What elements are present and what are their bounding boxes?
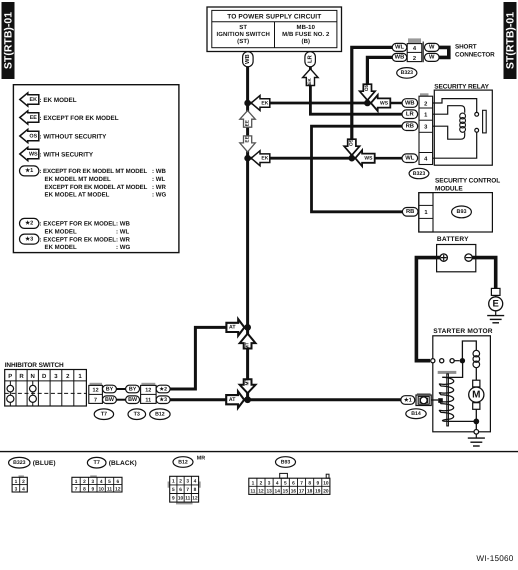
arrow EK below LR capsule bbox=[303, 69, 319, 86]
short connector pin block bbox=[407, 38, 423, 62]
svg-text:EE: EE bbox=[30, 115, 38, 121]
wire RB relay pin 3 to security control module bbox=[312, 126, 404, 212]
svg-text:3: 3 bbox=[91, 479, 94, 485]
svg-text:B93: B93 bbox=[281, 459, 291, 465]
svg-text:EK MODEL AT MODEL: EK MODEL AT MODEL bbox=[45, 192, 110, 199]
wire connector to solenoid dot bbox=[431, 399, 438, 401]
wire star3 from B12 pin 11 to j2 bbox=[170, 398, 240, 401]
starter motor branch wiring bbox=[462, 341, 476, 361]
battery wire to starter bbox=[416, 258, 440, 361]
svg-text:4: 4 bbox=[276, 480, 279, 486]
capsule LR fuse bbox=[305, 52, 316, 67]
svg-text:: WB: : WB bbox=[152, 168, 166, 175]
svg-text:ST(RTB)-01: ST(RTB)-01 bbox=[505, 12, 517, 69]
capsule star2 B12 pin 12 bbox=[156, 385, 170, 393]
svg-text:INHIBITOR SWITCH: INHIBITOR SWITCH bbox=[5, 362, 64, 369]
wire B to relay pin 2 bbox=[367, 102, 402, 105]
svg-text:: EXCEPT FOR EK MODEL: : EXCEPT FOR EK MODEL bbox=[40, 221, 117, 228]
svg-text:9: 9 bbox=[172, 496, 175, 502]
B93 pin grid bbox=[249, 473, 330, 494]
svg-text:T7: T7 bbox=[101, 412, 107, 418]
junction j1 AT/MT bbox=[244, 324, 251, 331]
svg-text:BY: BY bbox=[106, 386, 114, 392]
svg-text:WB: WB bbox=[405, 100, 415, 106]
svg-text:W: W bbox=[429, 45, 435, 51]
page label right ST(RTB)-01 bbox=[504, 2, 517, 79]
svg-text:★3: ★3 bbox=[24, 235, 33, 242]
ground symbol under E bbox=[487, 311, 504, 323]
starter ground wire and terminal bbox=[474, 421, 479, 434]
starter contact terminal on box edge bbox=[431, 359, 435, 363]
svg-text:6: 6 bbox=[179, 487, 182, 493]
inhibitor switch table bbox=[5, 370, 87, 407]
svg-text:8: 8 bbox=[83, 486, 86, 492]
divider line above connector strip bbox=[0, 451, 518, 453]
svg-text:: WB: : WB bbox=[116, 221, 130, 228]
svg-text:WS: WS bbox=[380, 100, 389, 106]
svg-text:BW: BW bbox=[128, 397, 138, 403]
svg-text:4: 4 bbox=[100, 479, 103, 485]
svg-text:LR: LR bbox=[406, 112, 415, 118]
oval B93 bottom bbox=[276, 457, 296, 468]
svg-text:7: 7 bbox=[186, 487, 189, 493]
svg-text:RB: RB bbox=[406, 209, 414, 215]
B12 pin grid bbox=[168, 476, 201, 504]
svg-text:15: 15 bbox=[283, 489, 289, 495]
svg-text:★1: ★1 bbox=[24, 167, 33, 174]
svg-text:★3: ★3 bbox=[159, 396, 167, 403]
svg-text:EK: EK bbox=[30, 97, 38, 103]
B12 connector pin boxes bbox=[141, 383, 157, 404]
arrow MT up below j1 bbox=[240, 334, 256, 349]
wire short connector WL down to D bbox=[352, 47, 393, 158]
svg-text:: EXCEPT FOR EK MODEL: : EXCEPT FOR EK MODEL bbox=[40, 236, 117, 243]
relay internal contact wiring bbox=[433, 99, 477, 140]
capsule WB relay pin 2 bbox=[402, 99, 418, 108]
svg-text:(BLACK): (BLACK) bbox=[109, 460, 137, 467]
svg-text:7: 7 bbox=[75, 486, 78, 492]
svg-text:2: 2 bbox=[179, 479, 182, 485]
wire WB ignition to junction A and down to C, j1, j2 bbox=[246, 67, 249, 400]
svg-text:5: 5 bbox=[108, 479, 111, 485]
oval T7 bottom bbox=[87, 457, 106, 468]
capsule star3 B12 pin 11 bbox=[156, 396, 170, 404]
starter motor coil loops bbox=[473, 350, 480, 367]
capsule LR relay pin 1 bbox=[402, 110, 418, 119]
svg-text:B323: B323 bbox=[13, 460, 26, 466]
arrow AT at j1 bbox=[226, 319, 244, 336]
svg-text:EK MODEL MT MODEL: EK MODEL MT MODEL bbox=[45, 176, 112, 183]
svg-text:T7: T7 bbox=[94, 460, 100, 466]
T7 connector pin boxes bbox=[89, 383, 103, 404]
arrow WS at junction B bbox=[371, 95, 390, 111]
capsule W short connector bottom bbox=[425, 53, 440, 61]
junction C bbox=[244, 155, 251, 162]
inhibitor switch mechanism dashes bbox=[5, 392, 87, 394]
legend arrow OS bbox=[20, 129, 107, 142]
capsule W short connector top bbox=[425, 43, 440, 51]
svg-text:12: 12 bbox=[92, 387, 98, 393]
svg-text:4: 4 bbox=[194, 479, 197, 485]
svg-text:D: D bbox=[42, 373, 47, 380]
svg-text:EK MODEL: EK MODEL bbox=[45, 244, 77, 251]
svg-text:2: 2 bbox=[83, 479, 86, 485]
capsule WL relay pin 4 bbox=[402, 154, 418, 163]
junction j2 AT/MT bbox=[244, 396, 251, 403]
svg-text:R: R bbox=[19, 373, 24, 380]
svg-text:7: 7 bbox=[300, 480, 303, 486]
svg-text:ST: ST bbox=[239, 24, 247, 31]
svg-text:: WG: : WG bbox=[116, 244, 130, 251]
svg-text:IGNITION SWITCH: IGNITION SWITCH bbox=[216, 31, 270, 38]
legend star3 bbox=[20, 234, 131, 251]
svg-text:SECURITY CONTROL: SECURITY CONTROL bbox=[435, 178, 500, 185]
svg-text:OS: OS bbox=[29, 133, 37, 139]
svg-text:ST(RTB)-01: ST(RTB)-01 bbox=[3, 12, 15, 69]
svg-text:2: 2 bbox=[66, 373, 70, 380]
svg-text:EXCEPT FOR EK MODEL AT MODEL: EXCEPT FOR EK MODEL AT MODEL bbox=[45, 184, 148, 191]
capsule WB short connector bbox=[392, 53, 407, 61]
svg-text:BY: BY bbox=[129, 386, 137, 392]
svg-text:EK: EK bbox=[261, 156, 268, 162]
svg-text:OS: OS bbox=[349, 138, 355, 146]
svg-text:3: 3 bbox=[268, 480, 271, 486]
svg-text:: WL: : WL bbox=[152, 176, 165, 183]
capsule RB relay pin 3 bbox=[402, 122, 418, 131]
svg-text:14: 14 bbox=[275, 489, 281, 495]
svg-text:3: 3 bbox=[15, 486, 18, 492]
svg-text:WL: WL bbox=[395, 45, 404, 51]
svg-text:11: 11 bbox=[250, 489, 255, 495]
svg-text:MR: MR bbox=[197, 456, 206, 462]
svg-text:: EK MODEL: : EK MODEL bbox=[40, 97, 77, 104]
svg-text:5: 5 bbox=[284, 480, 287, 486]
svg-text:STARTER MOTOR: STARTER MOTOR bbox=[433, 328, 493, 335]
svg-text:M/B FUSE NO. 2: M/B FUSE NO. 2 bbox=[282, 31, 330, 38]
capsule BW T7 bbox=[103, 396, 117, 404]
wire j2 to starter bbox=[248, 398, 401, 401]
battery plus terminal bbox=[440, 254, 447, 261]
solenoid terminal square bbox=[438, 398, 443, 403]
battery box bbox=[437, 245, 476, 272]
legend arrow EK bbox=[20, 93, 77, 106]
svg-text:SECURITY RELAY: SECURITY RELAY bbox=[434, 84, 489, 91]
arrow AT at j2 bbox=[226, 391, 244, 408]
svg-text:★1: ★1 bbox=[403, 396, 412, 403]
short connector jumper bracket bbox=[439, 47, 449, 57]
svg-text:WI-15060: WI-15060 bbox=[476, 554, 513, 563]
svg-text:1: 1 bbox=[172, 479, 175, 485]
svg-text:16: 16 bbox=[291, 489, 297, 495]
svg-text:EK: EK bbox=[307, 78, 313, 85]
oval B12 bottom bbox=[173, 457, 193, 468]
battery minus terminal bbox=[465, 254, 472, 261]
svg-text:WS: WS bbox=[364, 156, 373, 162]
svg-text:CONNECTOR: CONNECTOR bbox=[455, 52, 495, 59]
svg-text:2: 2 bbox=[424, 100, 427, 107]
oval B93 inside module bbox=[452, 206, 472, 218]
capsule star1 bbox=[401, 396, 415, 405]
oval B323 bottom bbox=[9, 457, 30, 468]
capsule BW T3 bbox=[126, 396, 140, 404]
svg-text:: WL: : WL bbox=[116, 228, 129, 235]
svg-text:★2: ★2 bbox=[159, 385, 167, 392]
svg-text:MODULE: MODULE bbox=[435, 185, 463, 192]
svg-text:: WITHOUT SECURITY: : WITHOUT SECURITY bbox=[40, 133, 108, 140]
wire stubs between connectors bbox=[116, 389, 127, 400]
svg-text:11: 11 bbox=[145, 397, 151, 403]
svg-text:LR: LR bbox=[307, 55, 313, 64]
legend arrow WS bbox=[20, 147, 94, 160]
power supply circuit box bbox=[207, 7, 342, 52]
legend arrow EE bbox=[20, 111, 119, 124]
svg-text:4: 4 bbox=[22, 486, 25, 492]
starter motor box bbox=[433, 336, 491, 432]
arrow OS above junction D bbox=[344, 139, 360, 155]
starter contact circles bbox=[440, 359, 460, 363]
svg-text:MB-10: MB-10 bbox=[297, 24, 316, 31]
svg-text:W: W bbox=[429, 55, 435, 61]
svg-text:AT: AT bbox=[229, 397, 236, 403]
solenoid plunger shaft bbox=[447, 374, 449, 426]
capsule WB ignition bbox=[243, 52, 254, 67]
oval B323 relay bbox=[409, 168, 429, 178]
svg-text:: EXCEPT FOR EK MODEL MT MODEL: : EXCEPT FOR EK MODEL MT MODEL bbox=[40, 168, 148, 175]
svg-text:12: 12 bbox=[258, 489, 264, 495]
svg-text:RB: RB bbox=[406, 124, 414, 130]
svg-text:WB: WB bbox=[245, 54, 251, 64]
svg-text:1: 1 bbox=[78, 373, 82, 380]
legend box bbox=[13, 85, 179, 253]
security relay box bbox=[434, 90, 492, 165]
solenoid coil spring bbox=[439, 377, 453, 421]
svg-text:1: 1 bbox=[75, 479, 78, 485]
inhibitor switch contacts N bbox=[29, 381, 36, 406]
svg-text:B323: B323 bbox=[401, 70, 414, 76]
svg-text:WL: WL bbox=[405, 156, 414, 162]
svg-text:3: 3 bbox=[54, 373, 58, 380]
starter motor brush and M circle bbox=[469, 368, 484, 422]
starter connector star1 bbox=[416, 393, 431, 406]
svg-text:1: 1 bbox=[15, 479, 18, 485]
B323 pin grid bbox=[12, 475, 27, 492]
svg-text:EE: EE bbox=[244, 119, 250, 126]
inhibitor switch contacts P bbox=[7, 381, 14, 406]
svg-text:1: 1 bbox=[252, 480, 255, 486]
svg-text:M: M bbox=[472, 390, 480, 401]
svg-text:3: 3 bbox=[186, 479, 189, 485]
capsule BY T7 bbox=[103, 385, 117, 393]
starter contact junction dot bbox=[460, 358, 465, 363]
svg-text:B323: B323 bbox=[413, 171, 426, 177]
svg-text:10: 10 bbox=[98, 486, 104, 492]
ground E circle bbox=[489, 295, 503, 310]
wire D to relay pin 4 bbox=[352, 157, 402, 160]
wire C to D bbox=[248, 157, 352, 160]
svg-text:E: E bbox=[493, 299, 499, 310]
junction B bbox=[364, 100, 371, 107]
ground E connector box bbox=[491, 288, 500, 295]
solenoid feed from contact dot bbox=[442, 361, 462, 378]
svg-text:19: 19 bbox=[315, 489, 321, 495]
security relay connector column bbox=[419, 93, 433, 164]
wire LR fuse down to relay pin 1 bbox=[310, 67, 402, 115]
svg-text:EK MODEL: EK MODEL bbox=[45, 228, 77, 235]
svg-text:EK: EK bbox=[261, 100, 268, 106]
svg-text:2: 2 bbox=[22, 479, 25, 485]
ground symbol under starter bbox=[468, 434, 485, 446]
svg-text:9: 9 bbox=[91, 486, 94, 492]
svg-text:AT: AT bbox=[229, 325, 236, 331]
arrow EK at junction A bbox=[251, 96, 270, 111]
svg-text:T3: T3 bbox=[134, 412, 140, 418]
svg-text:10: 10 bbox=[323, 480, 329, 486]
svg-text:(B): (B) bbox=[301, 38, 310, 45]
svg-text:TO POWER SUPPLY CIRCUIT: TO POWER SUPPLY CIRCUIT bbox=[227, 14, 321, 21]
svg-text:: WITH SECURITY: : WITH SECURITY bbox=[40, 151, 94, 158]
wire A to B bbox=[248, 102, 368, 105]
starter ground junction dot bbox=[473, 419, 479, 425]
svg-text:MT: MT bbox=[244, 378, 250, 385]
svg-text:8: 8 bbox=[308, 480, 311, 486]
oval B12 bbox=[150, 409, 170, 420]
svg-text:(BLUE): (BLUE) bbox=[33, 460, 56, 467]
oval B323 short connector bbox=[397, 68, 417, 79]
svg-text:10: 10 bbox=[178, 496, 184, 502]
svg-text:9: 9 bbox=[316, 480, 319, 486]
battery wire to ground E bbox=[472, 258, 495, 289]
arrow EE down above C bbox=[240, 136, 256, 152]
svg-text:: EXCEPT FOR EK MODEL: : EXCEPT FOR EK MODEL bbox=[40, 115, 119, 122]
oval B14 bbox=[406, 409, 426, 419]
svg-text:11: 11 bbox=[107, 486, 112, 492]
svg-text:OS: OS bbox=[364, 83, 370, 91]
svg-text:MT: MT bbox=[244, 342, 250, 349]
svg-text:B12: B12 bbox=[178, 459, 188, 465]
svg-text:5: 5 bbox=[172, 487, 175, 493]
svg-text:P: P bbox=[8, 373, 12, 380]
T7 pin grid bbox=[72, 475, 122, 492]
security control module box bbox=[419, 193, 493, 232]
page label left ST(RTB)-01 bbox=[2, 2, 15, 79]
wire short connector WB down to B bbox=[367, 57, 392, 103]
svg-text:12: 12 bbox=[192, 496, 198, 502]
solenoid plunger bar bbox=[438, 371, 457, 374]
svg-text:BATTERY: BATTERY bbox=[437, 236, 469, 243]
arrow WS at junction D bbox=[355, 150, 374, 166]
svg-text:: WR: : WR bbox=[116, 236, 130, 243]
svg-text:BW: BW bbox=[105, 397, 115, 403]
legend star2 bbox=[20, 218, 131, 235]
capsule WL short connector bbox=[392, 43, 407, 51]
junction A bbox=[244, 100, 251, 107]
arrow EK at junction C bbox=[251, 151, 270, 166]
svg-text:WB: WB bbox=[395, 55, 405, 61]
svg-text:6: 6 bbox=[292, 480, 295, 486]
svg-text:B12: B12 bbox=[155, 412, 165, 418]
svg-text:12: 12 bbox=[145, 387, 151, 393]
legend star1 bbox=[20, 166, 167, 199]
svg-text:SHORT: SHORT bbox=[455, 43, 477, 50]
svg-text:B93: B93 bbox=[457, 209, 467, 215]
svg-text:12: 12 bbox=[115, 486, 121, 492]
oval T7 bbox=[94, 409, 113, 420]
svg-text:20: 20 bbox=[323, 489, 329, 495]
svg-text:13: 13 bbox=[266, 489, 272, 495]
svg-text:: WR: : WR bbox=[152, 184, 166, 191]
svg-text:17: 17 bbox=[299, 489, 305, 495]
svg-text:7: 7 bbox=[94, 397, 97, 403]
capsule RB security control module bbox=[402, 208, 418, 217]
arrow MT down above j2 bbox=[240, 379, 256, 393]
svg-text:6: 6 bbox=[117, 479, 120, 485]
arrow OS above junction B bbox=[360, 84, 376, 100]
svg-text:: WG: : WG bbox=[152, 192, 166, 199]
junction D bbox=[349, 155, 356, 162]
svg-text:18: 18 bbox=[307, 489, 313, 495]
wire star2 from B12 pin 12 up to j1 bbox=[170, 327, 240, 389]
svg-text:2: 2 bbox=[260, 480, 263, 486]
svg-text:B14: B14 bbox=[411, 411, 421, 417]
svg-text:EE: EE bbox=[244, 135, 250, 142]
relay contact circles and armature bbox=[433, 110, 487, 158]
svg-text:8: 8 bbox=[194, 487, 197, 493]
svg-text:★2: ★2 bbox=[24, 220, 33, 227]
svg-text:WS: WS bbox=[29, 151, 38, 157]
arrow EE up below A bbox=[240, 111, 256, 128]
capsule BY T3 bbox=[126, 385, 140, 393]
svg-text:2: 2 bbox=[413, 55, 416, 62]
svg-text:11: 11 bbox=[185, 496, 190, 502]
relay coil loops bbox=[460, 113, 466, 132]
solenoid coil bottom connection bbox=[447, 420, 477, 422]
svg-text:N: N bbox=[31, 373, 35, 380]
oval T3 bbox=[128, 409, 146, 420]
svg-text:(ST): (ST) bbox=[237, 38, 249, 45]
